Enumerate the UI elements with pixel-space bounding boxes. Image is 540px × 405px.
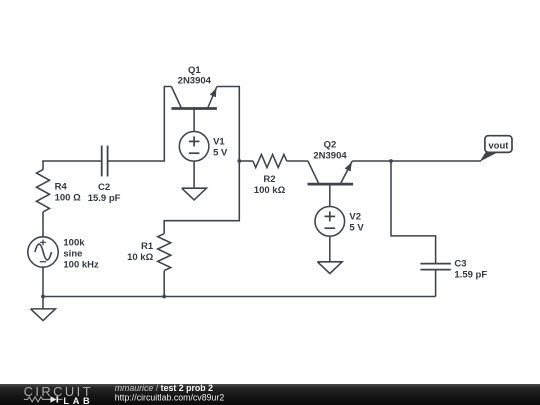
svg-text:C3: C3: [454, 259, 466, 270]
svg-text:100k: 100k: [63, 238, 85, 249]
svg-text:15.9 pF: 15.9 pF: [88, 193, 121, 204]
svg-text:Q2: Q2: [324, 140, 337, 151]
svg-text:C2: C2: [98, 182, 110, 193]
svg-text:sine: sine: [63, 249, 82, 260]
svg-text:V1: V1: [213, 136, 225, 147]
svg-text:100 kΩ: 100 kΩ: [254, 185, 286, 196]
svg-text:5 V: 5 V: [213, 147, 228, 158]
svg-text:100 Ω: 100 Ω: [55, 192, 81, 203]
svg-text:5 V: 5 V: [349, 222, 364, 233]
svg-text:http://circuitlab.com/cv89ur2: http://circuitlab.com/cv89ur2: [115, 393, 225, 403]
svg-text:1.59 pF: 1.59 pF: [454, 269, 487, 280]
svg-text:Q1: Q1: [188, 65, 201, 76]
svg-text:R1: R1: [141, 241, 154, 252]
svg-text:100 kHz: 100 kHz: [63, 259, 99, 270]
svg-text:2N3904: 2N3904: [313, 151, 347, 162]
svg-text:R2: R2: [263, 174, 275, 185]
svg-text:mmaurice / test 2 prob 2: mmaurice / test 2 prob 2: [115, 384, 213, 393]
svg-text:V2: V2: [349, 211, 361, 222]
svg-text:R4: R4: [55, 182, 68, 193]
svg-text:10 kΩ: 10 kΩ: [127, 252, 153, 263]
svg-text:2N3904: 2N3904: [178, 76, 212, 87]
svg-text:vout: vout: [488, 141, 509, 152]
svg-text:LAB: LAB: [63, 396, 93, 405]
